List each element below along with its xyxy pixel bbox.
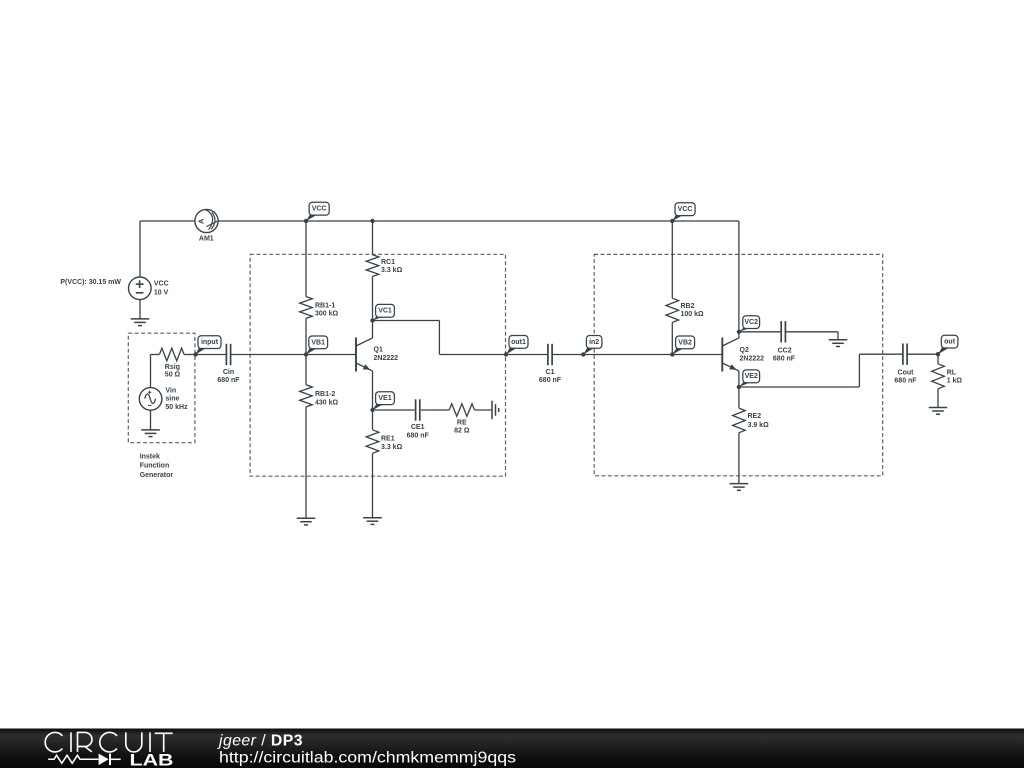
svg-text:RE1: RE1	[381, 436, 395, 443]
svg-text:RB2: RB2	[681, 303, 695, 310]
svg-text:2N2222: 2N2222	[740, 356, 765, 363]
svg-text:RL: RL	[947, 370, 957, 377]
svg-text:Vin: Vin	[165, 388, 176, 395]
svg-text:430 kΩ: 430 kΩ	[315, 399, 339, 406]
svg-text:VCC: VCC	[678, 206, 693, 213]
svg-text:sine: sine	[165, 396, 179, 403]
svg-text:VB2: VB2	[678, 339, 692, 346]
svg-text:50 kHz: 50 kHz	[165, 404, 188, 411]
svg-text:out1: out1	[511, 339, 526, 346]
svg-text:VC2: VC2	[744, 319, 758, 326]
svg-text:VE1: VE1	[378, 395, 391, 402]
svg-text:10 V: 10 V	[154, 290, 169, 297]
svg-text:RE2: RE2	[748, 413, 762, 420]
svg-text:out: out	[944, 339, 956, 346]
svg-text:680 nF: 680 nF	[539, 377, 562, 384]
svg-text:http://circuitlab.com/chmkmemm: http://circuitlab.com/chmkmemmj9qqs	[219, 750, 516, 767]
svg-text:680 nF: 680 nF	[894, 378, 917, 385]
svg-text:VE2: VE2	[745, 373, 758, 380]
svg-text:RE: RE	[457, 419, 467, 426]
svg-text:input: input	[201, 339, 219, 346]
svg-text:RB1-1: RB1-1	[315, 303, 335, 310]
svg-text:300 kΩ: 300 kΩ	[315, 311, 339, 318]
svg-text:Rsig: Rsig	[165, 364, 180, 371]
svg-text:Instek: Instek	[140, 454, 160, 461]
svg-text:VB1: VB1	[311, 339, 325, 346]
svg-text:1 kΩ: 1 kΩ	[947, 378, 963, 385]
svg-text:VC1: VC1	[378, 308, 392, 315]
svg-text:CE1: CE1	[411, 424, 425, 431]
svg-text:RC1: RC1	[381, 259, 395, 266]
svg-text:Q2: Q2	[740, 347, 749, 354]
svg-text:3.3 kΩ: 3.3 kΩ	[381, 267, 403, 274]
svg-text:jgeer / DP3: jgeer / DP3	[217, 732, 303, 749]
svg-text:3.3 kΩ: 3.3 kΩ	[381, 444, 403, 451]
svg-text:100 kΩ: 100 kΩ	[681, 311, 705, 318]
svg-text:Function: Function	[140, 463, 170, 470]
svg-text:CC2: CC2	[778, 347, 792, 354]
svg-text:2N2222: 2N2222	[374, 355, 399, 362]
svg-text:RB1-2: RB1-2	[315, 391, 335, 398]
svg-text:VCC: VCC	[312, 206, 327, 213]
svg-text:3.9 kΩ: 3.9 kΩ	[748, 422, 770, 429]
svg-text:VCC: VCC	[154, 281, 169, 288]
svg-text:Generator: Generator	[140, 472, 174, 479]
svg-text:LAB: LAB	[130, 751, 174, 768]
svg-text:82 Ω: 82 Ω	[454, 428, 470, 435]
svg-text:Cout: Cout	[898, 370, 915, 377]
svg-text:50 Ω: 50 Ω	[165, 372, 181, 379]
svg-text:AM1: AM1	[199, 236, 214, 243]
svg-text:680 nF: 680 nF	[773, 356, 796, 363]
svg-text:Cin: Cin	[223, 369, 234, 376]
svg-text:in2: in2	[589, 339, 599, 346]
svg-text:A: A	[196, 218, 205, 224]
svg-text:C1: C1	[546, 369, 555, 376]
svg-text:680 nF: 680 nF	[407, 432, 430, 439]
svg-text:P(VCC): 30.15 mW: P(VCC): 30.15 mW	[60, 279, 121, 286]
svg-text:680 nF: 680 nF	[217, 377, 240, 384]
svg-text:Q1: Q1	[374, 347, 383, 354]
